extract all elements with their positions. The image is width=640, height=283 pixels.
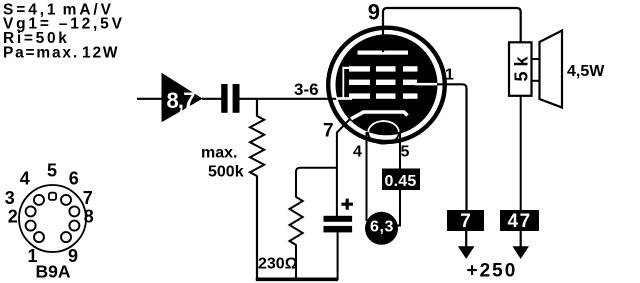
arrow below box 47: [512, 231, 529, 259]
svg-text:7: 7: [460, 211, 471, 232]
svg-text:3: 3: [5, 188, 15, 208]
svg-text:500k: 500k: [208, 164, 244, 181]
speaker connector wires: [531, 58, 540, 60]
wire R2 to rail: [295, 245, 297, 281]
tube V1: [328, 28, 445, 144]
wire capacitor to grid: [239, 98, 337, 100]
svg-text:B9A: B9A: [35, 262, 70, 282]
socket pin 3: [26, 206, 36, 216]
svg-text:7: 7: [323, 120, 334, 141]
svg-text:6: 6: [69, 169, 79, 189]
box 7: [447, 210, 484, 232]
grid g1 connector: [342, 67, 344, 99]
socket pin 9: [61, 232, 71, 242]
svg-text:5k: 5k: [511, 51, 531, 81]
circle 6,3: [365, 212, 398, 245]
wire input: [137, 98, 162, 100]
capacitor C2 electrolytic: [324, 216, 353, 233]
svg-text:5: 5: [47, 160, 57, 180]
svg-text:+250: +250: [467, 261, 518, 282]
grid g row2: [349, 80, 438, 86]
wire triangle to capacitor: [202, 98, 222, 100]
svg-text:max.: max.: [201, 145, 237, 162]
heater lead pin5: [398, 132, 401, 226]
socket B9A outline: [19, 185, 86, 252]
node junction grid/R1: [256, 99, 258, 117]
svg-text:8: 8: [84, 206, 94, 226]
grid g row3: [336, 93, 418, 99]
cathode: [351, 112, 408, 119]
svg-text:4: 4: [20, 169, 30, 189]
wire C2 to rail: [337, 232, 339, 280]
socket pin 2: [26, 221, 36, 231]
label + polarity: [341, 199, 353, 210]
svg-text:4: 4: [353, 144, 362, 161]
heater lead pin4: [366, 132, 368, 221]
svg-text:5: 5: [401, 144, 410, 161]
speaker LS1: [540, 31, 563, 108]
svg-text:47: 47: [508, 211, 532, 232]
wire 5k to 47: [520, 96, 522, 211]
capacitor C1 coupling: [221, 84, 239, 113]
resistor R1 max.500k: [250, 116, 264, 176]
box 47: [500, 210, 539, 232]
svg-text:7: 7: [83, 188, 93, 208]
anode lead wire: [383, 8, 521, 52]
svg-text:9: 9: [368, 0, 380, 24]
svg-text:2: 2: [8, 206, 18, 226]
svg-text:4,5W: 4,5W: [567, 63, 605, 80]
socket pin 1: [34, 232, 44, 242]
resistor R2 230ohm: [290, 197, 303, 245]
anode plate: [358, 51, 409, 55]
wire cathode down: [337, 120, 350, 217]
socket pin 4: [34, 195, 44, 205]
grid g row1: [349, 66, 418, 71]
wire R1 to bottom rail: [256, 176, 258, 281]
svg-text:1: 1: [445, 67, 454, 84]
svg-text:Pa=max. 12W: Pa=max. 12W: [3, 44, 119, 61]
socket pin 7: [69, 206, 79, 216]
screen lead wire pin1: [437, 84, 467, 210]
inner disc: [336, 34, 438, 135]
socket pin 5 index: [49, 193, 56, 200]
svg-text:230Ω: 230Ω: [258, 256, 298, 273]
socket pin 8: [69, 221, 79, 231]
envelope ring: [328, 28, 445, 142]
svg-text:0.45: 0.45: [385, 173, 417, 190]
svg-text:3-6: 3-6: [294, 80, 319, 99]
bottom rail: [256, 277, 338, 281]
heater arc white: [368, 121, 399, 132]
heater filament loop: [368, 121, 399, 143]
transformer primary 5k: [509, 42, 532, 96]
wire cathode branch horizontal: [296, 168, 337, 198]
arrow below box 7: [458, 231, 475, 259]
svg-text:6,3: 6,3: [370, 219, 394, 236]
box 0.45: [382, 169, 420, 191]
source symbol triangle 8,7: [162, 73, 203, 123]
svg-text:8,7: 8,7: [167, 88, 196, 113]
socket pin 6: [61, 195, 71, 205]
